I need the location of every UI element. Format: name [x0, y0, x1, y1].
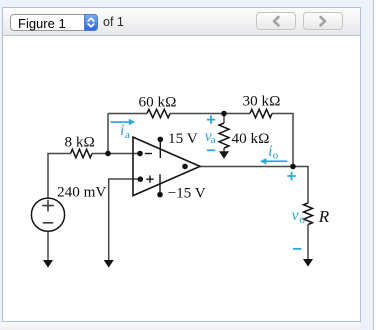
svg-text:240 mV: 240 mV: [57, 183, 106, 200]
prev button: [256, 12, 296, 31]
svg-text:i: i: [268, 143, 272, 160]
wire: load resistor bottom to ground: [307, 225, 309, 260]
polarity + for v_a: [207, 115, 215, 123]
polarity - for v_a: [207, 149, 215, 151]
node: output dot: [182, 164, 188, 170]
ground under 40k: [219, 151, 229, 159]
svg-text:a: a: [125, 129, 130, 141]
svg-text:−15 V: −15 V: [168, 185, 206, 202]
wire: feedback vertical from node to top rail: [107, 114, 109, 154]
dropdown "Figure 1": [10, 14, 98, 31]
resistor 30k: [250, 109, 272, 117]
svg-text:v: v: [292, 207, 300, 224]
wire: source bottom to ground: [47, 231, 49, 260]
footer strip below panel: [2, 322, 360, 330]
op-amp negative supply lead: [159, 174, 161, 194]
svg-text:15 V: 15 V: [168, 130, 198, 147]
node: inverting input dot: [137, 151, 143, 157]
wire: top rail left (to 60k): [108, 113, 147, 115]
svg-text:40 kΩ: 40 kΩ: [232, 130, 270, 147]
node: feedback junction on inverting wire: [105, 151, 111, 157]
resistor 60k: [147, 109, 170, 117]
ground under source: [43, 260, 53, 268]
node: 40k tap on top rail: [221, 111, 227, 117]
svg-text:o: o: [299, 214, 305, 226]
svg-text:R: R: [318, 207, 330, 226]
node: noninverting input dot: [138, 176, 144, 182]
svg-text:8 kΩ: 8 kΩ: [65, 134, 95, 151]
svg-text:60 kΩ: 60 kΩ: [139, 94, 177, 111]
wire: top rail right + right vertical down to output: [272, 114, 293, 167]
node: +15V supply dot: [158, 137, 164, 143]
wire: 8k resistor to inverting input: [92, 153, 140, 155]
current arrow i_a: [111, 119, 136, 126]
op-amp plus input marking: [146, 176, 153, 183]
wire: 40k top lead: [223, 114, 225, 124]
polarity - for v_o: [293, 248, 301, 250]
resistor 8k: [71, 149, 93, 157]
voltage source V1 240 mV: [31, 198, 64, 231]
op-amp positive supply lead: [159, 139, 161, 158]
wire: source top to 8k resistor (left vertical + horizontal): [48, 154, 71, 199]
node: output junction: [290, 164, 296, 170]
next button: [303, 12, 343, 31]
resistor R (load, vertical): [304, 203, 313, 225]
ground under load R: [303, 259, 313, 267]
op-amp minus input marking: [145, 153, 152, 155]
wire: top rail middle (60k to 30k with node): [170, 113, 250, 115]
node: -15V supply dot: [157, 192, 163, 198]
wire: op-amp output to load corner: [200, 167, 308, 204]
svg-text:30 kΩ: 30 kΩ: [243, 93, 281, 110]
resistor 40k (vertical): [219, 123, 229, 148]
svg-text:o: o: [273, 149, 279, 161]
polarity + for v_o: [287, 172, 295, 180]
wire: 40k bottom lead to ground: [223, 148, 225, 152]
svg-text:a: a: [211, 134, 216, 146]
toolbar: [3, 8, 360, 36]
op-amp U1 triangle: [133, 137, 200, 196]
"of 1": [103, 15, 124, 29]
ground under noninverting branch: [104, 260, 114, 268]
dropdown blue spinner: [84, 14, 98, 31]
wire: noninverting input to grounded vertical: [109, 179, 140, 260]
svg-text:i: i: [120, 122, 124, 139]
current arrow i_o: [260, 158, 287, 165]
